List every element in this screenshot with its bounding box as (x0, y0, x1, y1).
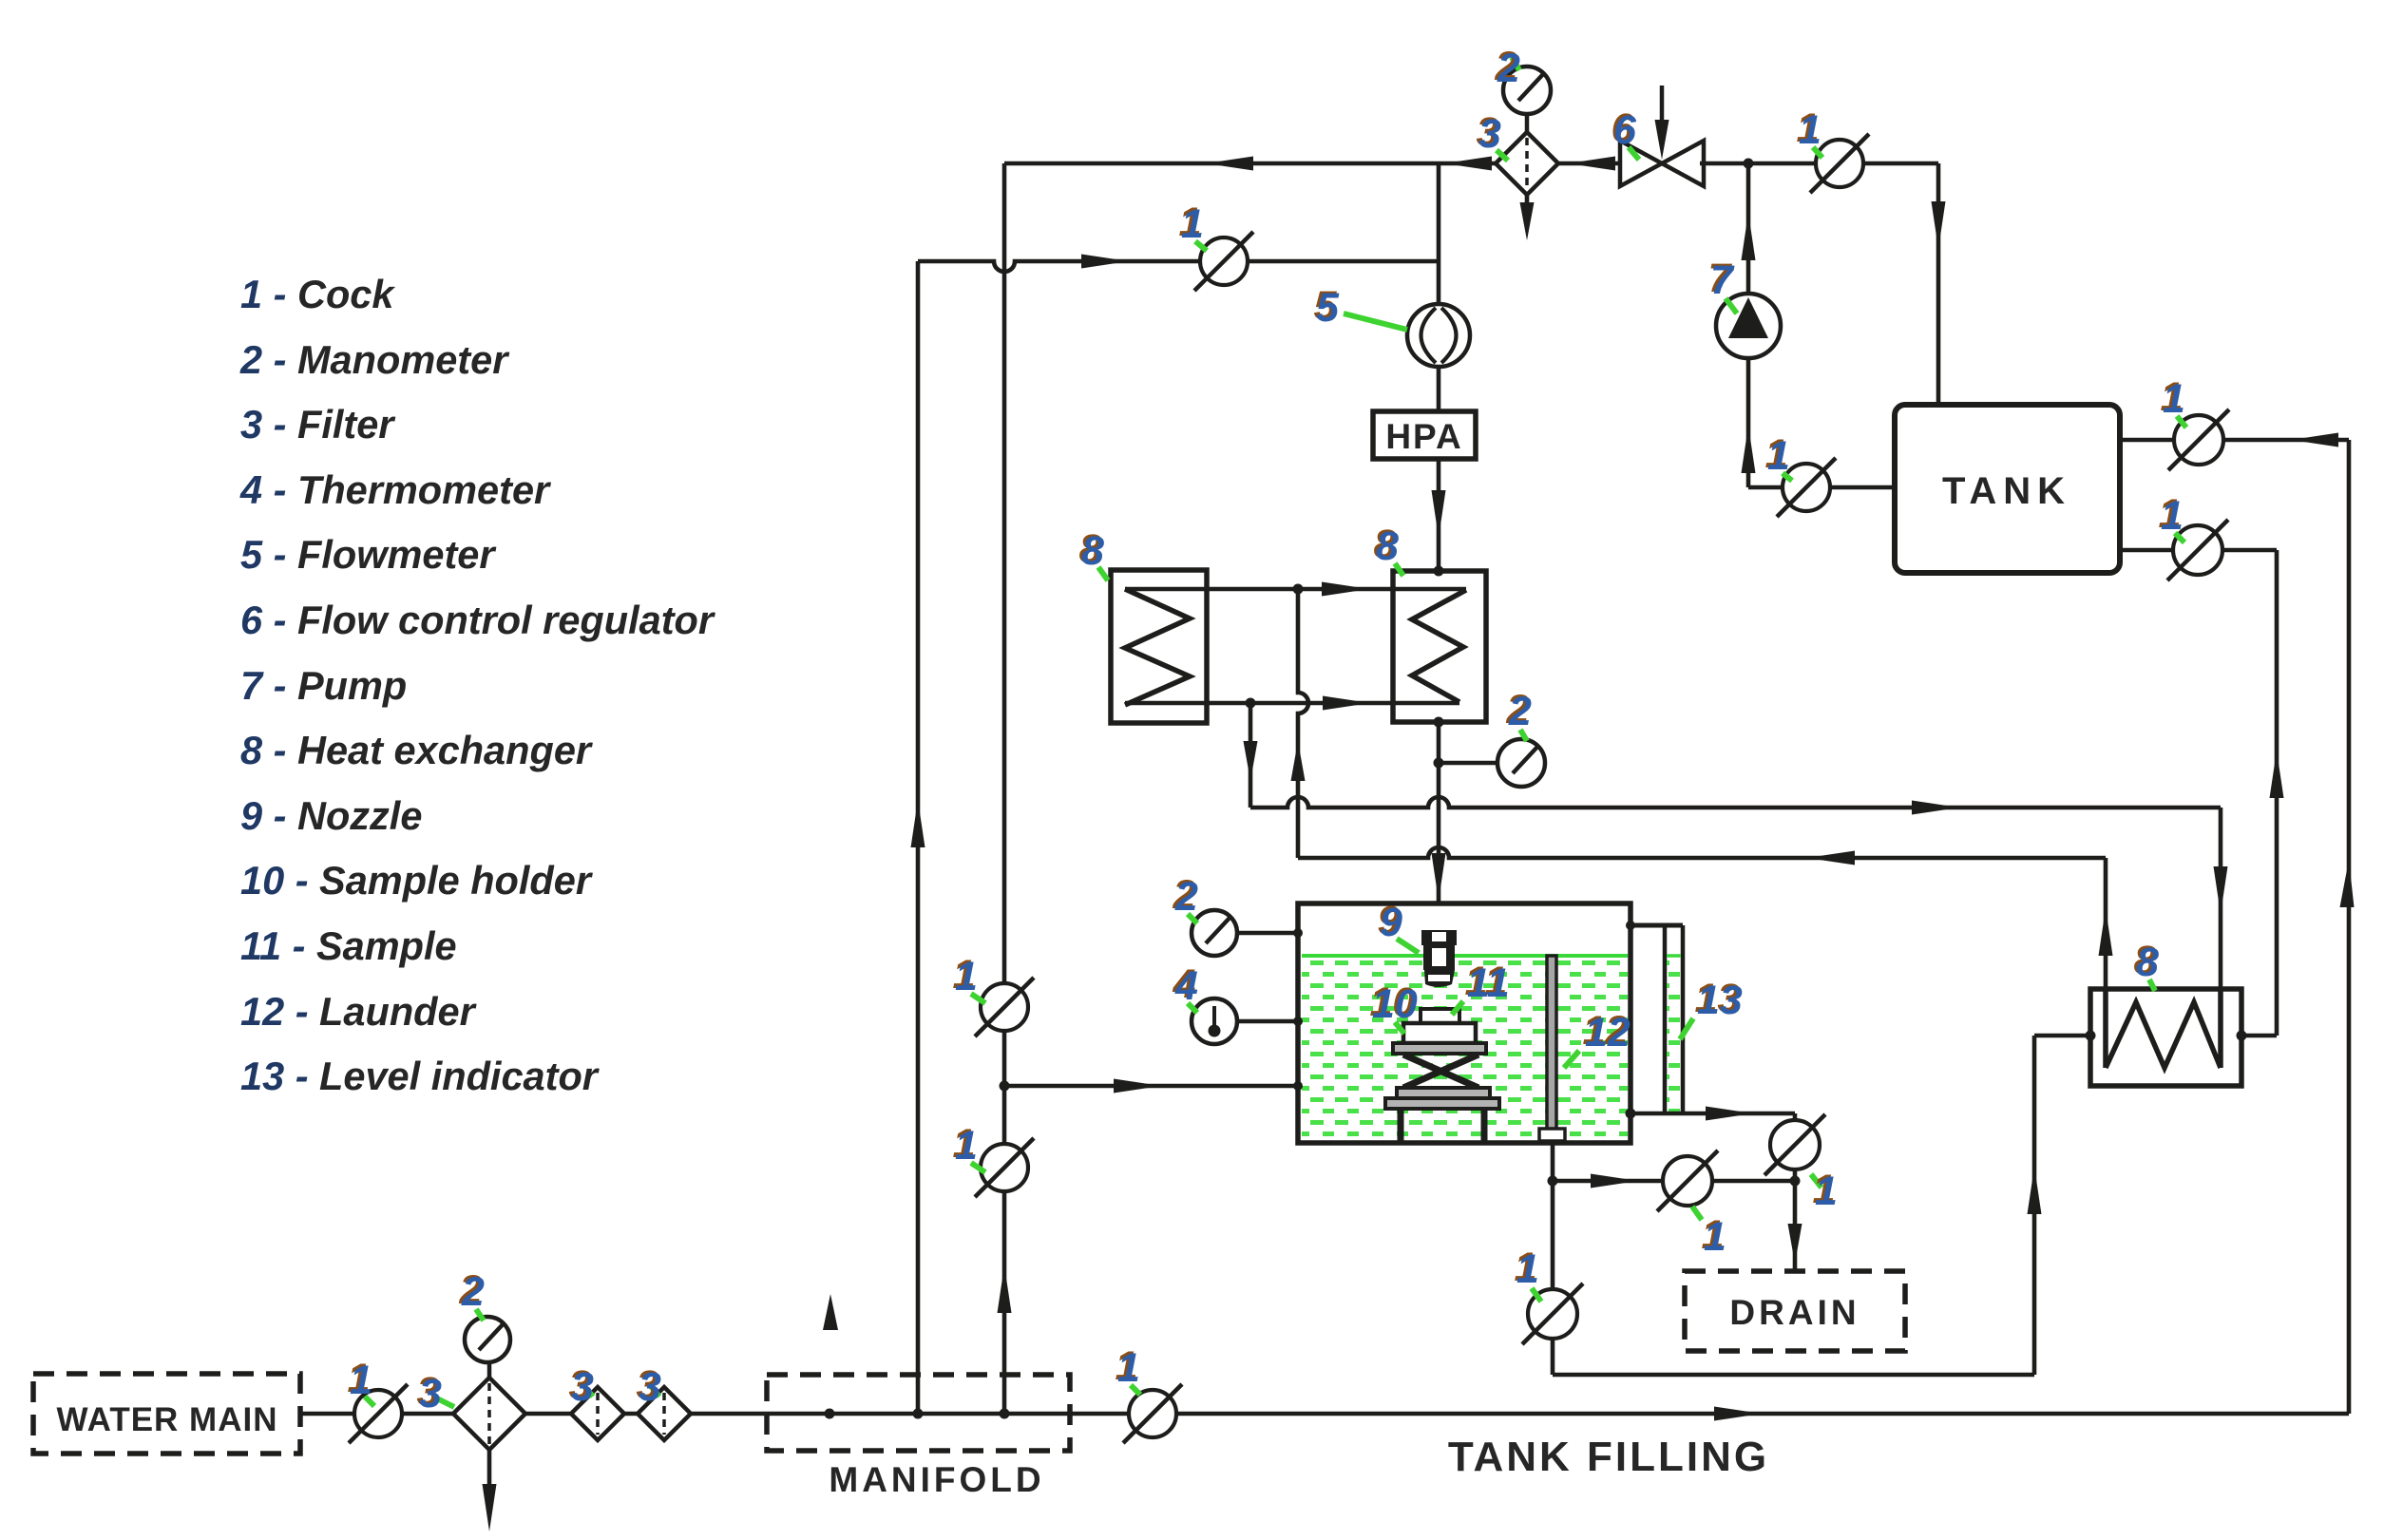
svg-text:1: 1 (955, 1123, 978, 1169)
svg-text:13 - Level indicator: 13 - Level indicator (240, 1054, 601, 1098)
svg-text:2: 2 (1174, 874, 1198, 920)
wire: launder drain line (1551, 1143, 1555, 1375)
svg-text:MANIFOLD: MANIFOLD (829, 1460, 1044, 1499)
node: level tube top connector (1626, 921, 1635, 930)
wire: top return line y=172 (1004, 162, 1496, 166)
manometer 2 (465, 1317, 510, 1362)
wire: manometer branch below HX b (1439, 761, 1497, 766)
wire: riser from manifold to upper-left loop (x=966) (916, 261, 921, 1414)
wire: vertical from line B up to coil top connector (hops) (1298, 589, 1308, 858)
node label 1 (348, 1356, 375, 1406)
svg-text:11: 11 (1467, 960, 1510, 1006)
wire: bottom of drain loop to far-right riser (1553, 1373, 2034, 1378)
cock 1 (1123, 1384, 1182, 1443)
thermometer 4 (1192, 998, 1237, 1044)
manometer 2 on chamber (1237, 931, 1298, 936)
test chamber water fill (1302, 957, 1628, 1140)
node label 1 (1179, 200, 1208, 251)
cock 1 (1810, 134, 1869, 193)
svg-text:12 - Launder: 12 - Launder (240, 989, 478, 1034)
node label 8 (2134, 938, 2160, 991)
manometer 2 (1497, 739, 1545, 787)
svg-text:4: 4 (1174, 963, 1198, 1009)
wire: riser HX right to tank (2275, 550, 2279, 1036)
wire: line B from HX right to coil riser (hop at 1514) (1298, 847, 2106, 858)
node label 1 (1116, 1343, 1141, 1395)
wire: drop into tank top (1936, 163, 1941, 405)
svg-text:1: 1 (1704, 1214, 1726, 1260)
cock 1 (1522, 1283, 1583, 1344)
nozzle 9 (1421, 930, 1457, 987)
cock 1 (2168, 409, 2229, 470)
node: manifold junctions (825, 1409, 835, 1419)
svg-text:1: 1 (350, 1358, 372, 1403)
manometer 2 (top) (1525, 114, 1530, 132)
HPA unit box (1373, 411, 1476, 459)
cock 1 (1777, 458, 1836, 517)
wire: filter to flow regulator (1558, 162, 1624, 166)
cock 1 (1657, 1150, 1718, 1211)
svg-text:3: 3 (571, 1364, 594, 1410)
svg-text:11 - Sample: 11 - Sample (240, 923, 457, 968)
node label 1 (1765, 431, 1793, 481)
svg-text:1: 1 (2163, 376, 2185, 422)
svg-text:WATER MAIN: WATER MAIN (57, 1401, 278, 1438)
svg-text:10 - Sample holder: 10 - Sample holder (240, 858, 594, 903)
svg-text:3: 3 (639, 1364, 661, 1410)
node label 1 (1797, 105, 1823, 158)
node: chamber left edge connections (1293, 928, 1303, 938)
node label 5 (1314, 283, 1408, 331)
filter 3 (453, 1378, 525, 1450)
node label 1 (1811, 1167, 1838, 1214)
filter 3 (638, 1387, 691, 1440)
heat exchanger 8 (right) (2090, 989, 2241, 1086)
svg-text:8: 8 (1081, 528, 1104, 574)
legend list (239, 272, 716, 1098)
manometer 2 (1192, 910, 1237, 956)
cock 1 (2167, 520, 2228, 580)
node label 1 (1692, 1207, 1726, 1260)
svg-text:7 - Pump: 7 - Pump (240, 663, 407, 708)
wire: pump branch (1746, 163, 1751, 294)
svg-text:HPA: HPA (1385, 417, 1462, 456)
svg-text:2: 2 (461, 1269, 485, 1315)
svg-text:3: 3 (419, 1371, 442, 1416)
wire: line B riser from HX right coil (2104, 858, 2108, 989)
level indicator 13 (1631, 925, 1683, 1113)
wire: line A to far heat exchanger (hops at 1366,1514) (1250, 797, 2221, 808)
wire: launder drain to drain box branch (1553, 1179, 1795, 1184)
wire: chamber overflow outlet (1631, 1112, 1795, 1116)
node label 3 (417, 1369, 455, 1416)
svg-text:8: 8 (1376, 523, 1399, 569)
node label 2 (1173, 872, 1199, 923)
node label 1 (953, 952, 986, 1003)
node label 12 (1564, 1008, 1631, 1068)
wire: regulator to tank drop (1700, 162, 1938, 166)
sample holder 10 with sample 11 (scissor lift) (1385, 1009, 1499, 1143)
node label 2 (1506, 687, 1533, 741)
wire: drain stub below large filter (487, 1450, 492, 1493)
wire: riser from manifold to top line (x=1057) (1002, 163, 1007, 1414)
node label 7 (1708, 256, 1738, 314)
svg-text:2: 2 (1508, 689, 1532, 734)
node label 8 (1079, 526, 1109, 580)
node label 10 (1370, 979, 1418, 1034)
heat exchanger 8 (left) (1111, 570, 1207, 723)
pump 7 (1716, 294, 1781, 358)
svg-text:1: 1 (1815, 1169, 1838, 1214)
svg-text:6 - Flow control regulator: 6 - Flow control regulator (240, 598, 716, 642)
wire: vent arrow above manifold (823, 1294, 838, 1330)
svg-text:9: 9 (1380, 900, 1402, 945)
svg-text:6: 6 (1613, 107, 1637, 153)
svg-text:1: 1 (1181, 201, 1204, 247)
cock 1 (1194, 232, 1253, 291)
svg-text:1: 1 (955, 954, 978, 999)
water surface line (1302, 954, 1628, 958)
wire: right riser to tank return (2347, 440, 2352, 1414)
node: branch to test chamber (1000, 1081, 1010, 1092)
wire: vertical from coil connector down to line A (1249, 703, 1253, 808)
DRAIN dashed box (1685, 1271, 1905, 1351)
cock 1 (349, 1384, 408, 1443)
svg-text:1: 1 (2161, 493, 2184, 539)
svg-text:2: 2 (1497, 46, 1520, 91)
node label 2 (459, 1267, 486, 1321)
filter 3 (571, 1387, 624, 1440)
svg-text:1: 1 (1516, 1246, 1539, 1292)
svg-text:2 - Manometer: 2 - Manometer (239, 337, 510, 382)
wire: main vertical to flowmeter (1437, 163, 1441, 304)
thermometer 4 on chamber (1237, 1019, 1298, 1024)
wire: riser to HX right shell (2032, 1036, 2037, 1375)
svg-text:3 - Filter: 3 - Filter (240, 402, 396, 447)
node label 2 (1495, 44, 1521, 91)
node label 6 (1612, 105, 1640, 160)
svg-text:10: 10 (1372, 981, 1418, 1027)
svg-text:13: 13 (1697, 978, 1743, 1023)
svg-text:DRAIN: DRAIN (1729, 1293, 1860, 1332)
WATER MAIN source box (33, 1374, 300, 1454)
wire: HX coil bottom connector (1125, 701, 1459, 706)
svg-text:8 - Heat exchanger: 8 - Heat exchanger (240, 728, 594, 772)
cock 1 (975, 1138, 1034, 1197)
wire: second line y=275 with hop over riser (918, 261, 1439, 272)
node label 1 (1515, 1245, 1542, 1302)
svg-text:1: 1 (1117, 1345, 1140, 1391)
manometer 2 (1503, 67, 1551, 114)
node label 9 (1378, 898, 1420, 953)
node label 8 (1374, 522, 1404, 576)
svg-text:12: 12 (1585, 1010, 1631, 1055)
TANK vessel (1895, 405, 2120, 573)
wire: HPA to heat exchanger (1437, 459, 1441, 571)
wire: drain stub below top filter (1525, 195, 1530, 204)
heat exchanger 8 (middle) (1393, 571, 1486, 722)
wire: tank upper return (2120, 438, 2349, 443)
launder 12 (1539, 956, 1565, 1141)
cock 1 (975, 978, 1034, 1036)
svg-text:5: 5 (1316, 285, 1340, 331)
wire: through HX b down to nozzle, hops over 2 lines (1437, 722, 1441, 903)
svg-text:3: 3 (1478, 111, 1501, 157)
svg-text:1: 1 (1767, 433, 1790, 479)
svg-text:1 - Cock: 1 - Cock (240, 272, 395, 316)
cock 1 (1764, 1114, 1825, 1175)
node label 3 (637, 1362, 662, 1410)
wire: shell outlet right (2241, 1034, 2277, 1038)
wire: tank lower outlet (2120, 548, 2277, 553)
node label 4 (1173, 961, 1199, 1013)
node label 11 (1452, 959, 1510, 1015)
node label 3 (569, 1362, 595, 1410)
filter 3 (1496, 132, 1558, 195)
svg-text:1: 1 (1799, 107, 1821, 153)
node label 1 (2159, 491, 2185, 542)
svg-text:8: 8 (2136, 940, 2159, 985)
svg-text:4 - Thermometer: 4 - Thermometer (239, 467, 552, 512)
svg-text:9 - Nozzle: 9 - Nozzle (240, 793, 422, 838)
svg-text:TANK FILLING: TANK FILLING (1448, 1434, 1769, 1480)
wire: drop to drain cock (1793, 1113, 1798, 1271)
manometer 2 above large filter (487, 1362, 492, 1378)
test chamber box (1298, 903, 1631, 1143)
node label 1 (953, 1121, 986, 1172)
MANIFOLD dashed box (767, 1375, 1070, 1451)
svg-text:5 - Flowmeter: 5 - Flowmeter (240, 532, 497, 577)
wire: line A drop into HX right (2219, 808, 2223, 989)
wire: shell inlet left (2034, 1034, 2090, 1038)
wire: branch to test chamber inlet (1004, 1084, 1298, 1089)
svg-text:7: 7 (1710, 257, 1735, 303)
wire: main supply line WATER MAIN to right edge (300, 1412, 2349, 1416)
wire: tank filling arrow (1714, 1407, 1762, 1421)
flow control regulator 6 (1620, 86, 1704, 186)
node label 1 (2161, 374, 2187, 428)
flowmeter 5 (1407, 304, 1470, 367)
wire: HX coil top connector (1125, 587, 1466, 592)
node label 3 (1477, 109, 1509, 161)
wire: pump suction from tank (1748, 485, 1895, 490)
node label 13 (1680, 976, 1743, 1039)
svg-text:TANK: TANK (1942, 470, 2071, 512)
